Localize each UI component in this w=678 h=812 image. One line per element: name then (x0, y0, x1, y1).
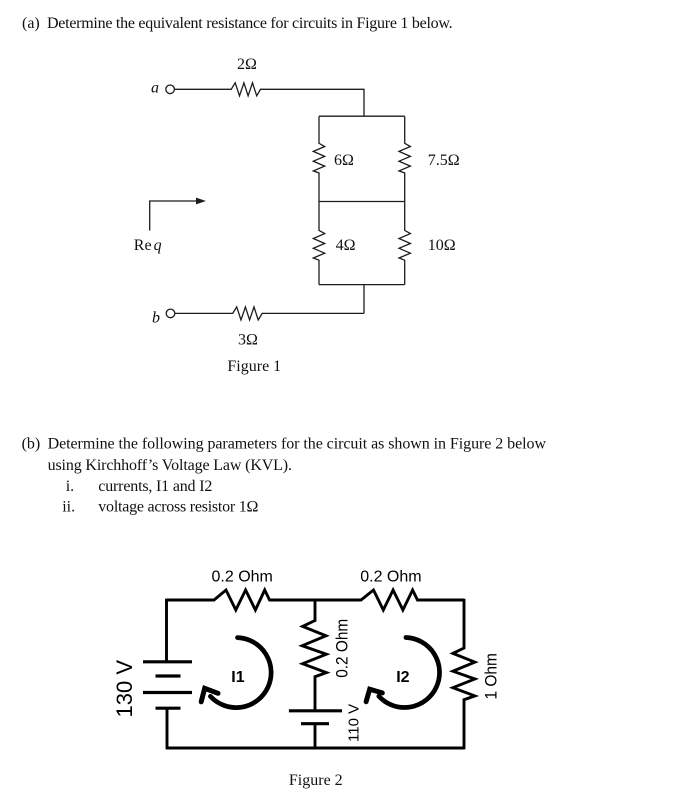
svg-text:Determine the equivalent resis: Determine the equivalent resistance for … (47, 15, 452, 32)
svg-text:3Ω: 3Ω (238, 332, 258, 349)
svg-text:4Ω: 4Ω (336, 237, 356, 254)
svg-text:(a): (a) (22, 15, 40, 32)
svg-text:I1: I1 (231, 669, 244, 686)
svg-text:2Ω: 2Ω (237, 56, 257, 73)
svg-text:voltage across resistor 1Ω: voltage across resistor 1Ω (98, 499, 258, 516)
svg-text:110 V: 110 V (346, 704, 363, 742)
svg-text:(b): (b) (22, 436, 41, 453)
svg-text:currents, I1 and I2: currents, I1 and I2 (98, 478, 212, 495)
svg-text:i.: i. (66, 478, 74, 495)
svg-text:I2: I2 (396, 669, 409, 686)
svg-text:7.5Ω: 7.5Ω (428, 152, 460, 169)
svg-text:Req: Req (134, 237, 162, 254)
svg-text:130 V: 130 V (112, 660, 137, 718)
svg-text:6Ω: 6Ω (334, 152, 354, 169)
svg-text:using Kirchhoff’s Voltage Law: using Kirchhoff’s Voltage Law (KVL). (48, 457, 292, 474)
svg-text:0.2 Ohm: 0.2 Ohm (212, 569, 273, 586)
svg-text:ii.: ii. (62, 499, 75, 516)
svg-text:0.2 Ohm: 0.2 Ohm (333, 619, 352, 678)
svg-text:0.2 Ohm: 0.2 Ohm (360, 569, 421, 586)
svg-text:b: b (152, 310, 160, 327)
svg-text:Determine the following parame: Determine the following parameters for t… (48, 436, 547, 453)
svg-text:10Ω: 10Ω (428, 237, 456, 254)
svg-text:Figure 1: Figure 1 (227, 358, 281, 375)
svg-text:1 Ohm: 1 Ohm (482, 653, 501, 700)
svg-text:Figure 2: Figure 2 (289, 772, 343, 789)
svg-text:a: a (151, 80, 159, 97)
